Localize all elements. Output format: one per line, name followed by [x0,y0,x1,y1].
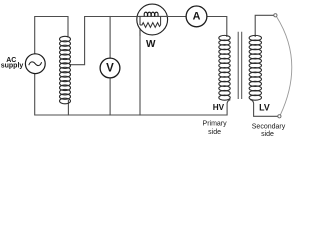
svg-text:V: V [106,62,114,74]
svg-text:Secondary: Secondary [252,124,286,131]
svg-text:supply: supply [1,62,24,69]
svg-text:side: side [208,129,221,136]
svg-text:W: W [146,39,156,50]
svg-text:A: A [193,10,201,22]
svg-text:LV: LV [259,102,270,112]
svg-text:side: side [261,131,274,138]
svg-text:Primary: Primary [203,121,228,128]
svg-text:HV: HV [213,103,225,112]
